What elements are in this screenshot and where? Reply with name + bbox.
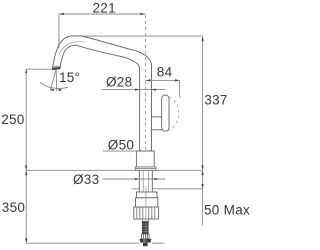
angle 15 arrows [50, 89, 62, 92]
O33 arrows [135, 178, 157, 180]
svg-text:350: 350 [2, 200, 25, 215]
svg-text:84: 84 [157, 64, 173, 79]
hose tube [142, 219, 148, 222]
hose end tip [143, 243, 148, 246]
dimension 50 Max [202, 170, 204, 225]
hose threads [142, 222, 149, 235]
dimension 221 line [59, 14, 145, 49]
svg-text:Ø33: Ø33 [73, 172, 99, 187]
knurled ring [134, 207, 159, 219]
svg-text:221: 221 [92, 1, 115, 16]
svg-text:50 Max: 50 Max [204, 203, 250, 218]
handle dashed raised position [169, 97, 179, 131]
dimension 50 Max arrows [201, 170, 203, 189]
dimension 250 arrows [25, 69, 27, 170]
dimension 337 arrows [201, 36, 203, 170]
svg-text:Ø50: Ø50 [108, 138, 134, 153]
dimension 84 [145, 80, 179, 97]
shank inner tube [143, 170, 148, 192]
knurl lines [137, 207, 155, 219]
O50 arrows [136, 150, 154, 152]
faucet base [136, 151, 154, 167]
mounting nut upper [137, 192, 158, 198]
dimension 337 [202, 36, 204, 170]
O28 arrows [135, 88, 156, 90]
threaded shank [139, 170, 152, 192]
centerline dashed [144, 15, 146, 151]
svg-text:15°: 15° [59, 70, 80, 85]
dimension 350 bottom line [26, 242, 164, 244]
base flange [135, 167, 156, 170]
dimension 84 arrows [146, 79, 180, 81]
centerline lower [145, 186, 147, 242]
counter top line [26, 169, 202, 171]
handle lever [162, 95, 169, 131]
svg-text:Ø28: Ø28 [106, 74, 132, 89]
dimension 350 arrows [25, 170, 27, 243]
dimension 221 arrows [59, 13, 145, 15]
hose end nut [139, 239, 151, 243]
counter bottom line [132, 188, 203, 190]
mounting nut lower [136, 198, 158, 207]
extension line top (hump to 337) [80, 35, 203, 37]
spout nozzle outlet face [52, 67, 60, 70]
spout nozzle end ring [53, 65, 60, 67]
angle 15 annotation legs [40, 70, 68, 92]
spout outer outline [52, 36, 151, 151]
spout inner outline [60, 45, 140, 151]
hose coupling [141, 234, 149, 239]
handle neck [152, 117, 163, 130]
spout bend crease line [59, 42, 85, 56]
svg-text:337: 337 [204, 93, 227, 108]
dimension 250-350 extension line [26, 69, 52, 243]
svg-text:250: 250 [1, 112, 24, 127]
